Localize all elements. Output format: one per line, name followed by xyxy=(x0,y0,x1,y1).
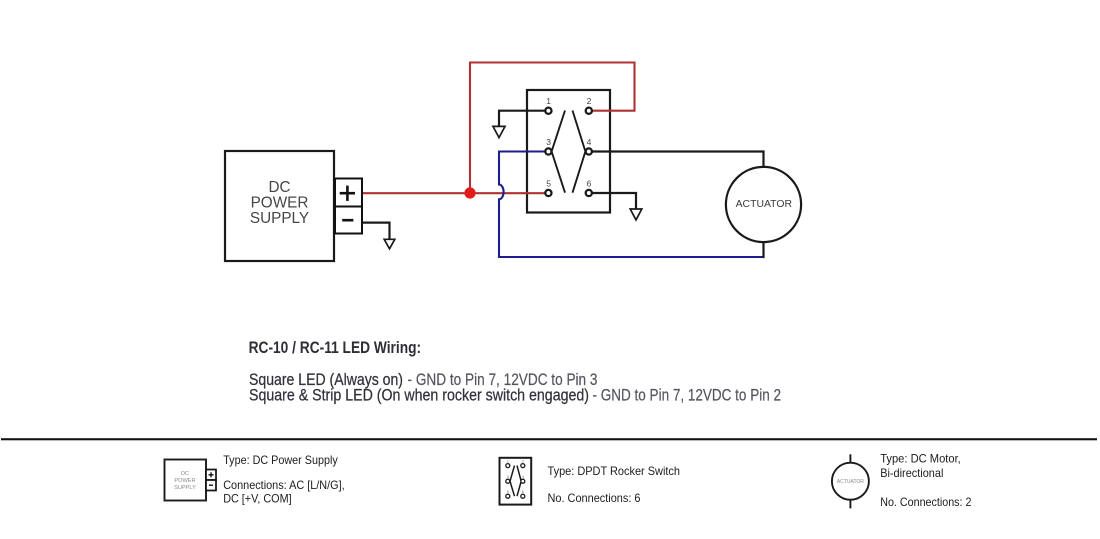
svg-text:No. Connections: 6: No. Connections: 6 xyxy=(548,491,641,505)
svg-text:SUPPLY: SUPPLY xyxy=(250,210,309,227)
svg-text:5: 5 xyxy=(546,178,551,188)
svg-text:Type: DC Power Supply: Type: DC Power Supply xyxy=(223,453,338,467)
svg-text:3: 3 xyxy=(546,137,551,147)
svg-text:2: 2 xyxy=(522,460,524,464)
svg-text:3: 3 xyxy=(507,475,509,479)
svg-text:No. Connections: 2: No. Connections: 2 xyxy=(880,495,972,509)
svg-text:SUPPLY: SUPPLY xyxy=(174,485,196,491)
svg-text:DC: DC xyxy=(181,471,189,477)
svg-text:Type: DPDT Rocker Switch: Type: DPDT Rocker Switch xyxy=(548,464,681,478)
svg-text:RC-10 / RC-11 LED Wiring:: RC-10 / RC-11 LED Wiring: xyxy=(249,338,422,357)
svg-text:6: 6 xyxy=(522,490,524,494)
svg-text:1: 1 xyxy=(507,460,509,464)
svg-text:- GND to Pin 7, 12VDC to Pin 2: - GND to Pin 7, 12VDC to Pin 2 xyxy=(593,386,782,404)
svg-text:Bi-directional: Bi-directional xyxy=(880,466,943,480)
svg-text:1: 1 xyxy=(546,96,551,106)
svg-text:ACTUATOR: ACTUATOR xyxy=(736,199,792,210)
svg-text:2: 2 xyxy=(587,96,592,106)
svg-text:6: 6 xyxy=(587,178,592,188)
svg-text:POWER: POWER xyxy=(251,195,309,212)
svg-text:DC: DC xyxy=(268,179,290,196)
svg-text:Square & Strip LED (On when ro: Square & Strip LED (On when rocker switc… xyxy=(249,386,589,404)
svg-text:Connections: AC [L/N/G],: Connections: AC [L/N/G], xyxy=(223,478,345,492)
svg-text:5: 5 xyxy=(507,490,509,494)
svg-text:4: 4 xyxy=(587,137,592,147)
svg-text:ACTUATOR: ACTUATOR xyxy=(837,479,864,485)
svg-text:4: 4 xyxy=(522,475,524,479)
svg-text:POWER: POWER xyxy=(174,478,195,484)
svg-text:DC [+V, COM]: DC [+V, COM] xyxy=(223,491,291,505)
svg-text:Type: DC Motor,: Type: DC Motor, xyxy=(880,451,961,465)
